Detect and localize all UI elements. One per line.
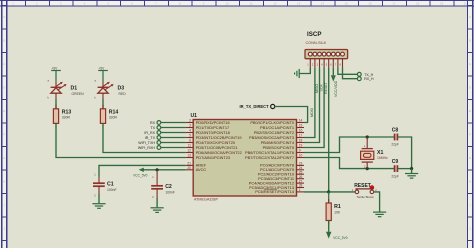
svg-text:D1: D1 bbox=[71, 85, 78, 91]
svg-text:MISO: MISO bbox=[315, 84, 319, 93]
ground below button bbox=[373, 212, 386, 217]
resistor R1 10K bbox=[326, 192, 331, 224]
svg-text:17: 17 bbox=[392, 2, 396, 6]
svg-text:22pF: 22pF bbox=[391, 174, 398, 178]
svg-text:16MHz: 16MHz bbox=[377, 156, 388, 160]
U1 left pin 2 PD0 stub bbox=[186, 122, 193, 124]
svg-text:330R: 330R bbox=[109, 116, 118, 120]
svg-text:330R: 330R bbox=[62, 116, 71, 120]
svg-text:10: 10 bbox=[299, 154, 303, 158]
U1 right pin 28 PC5 stub bbox=[297, 187, 305, 189]
svg-text:20: 20 bbox=[464, 2, 468, 6]
wire ISCP pin8 to RX_H bbox=[343, 67, 358, 78]
svg-text:C9: C9 bbox=[392, 159, 399, 165]
svg-text:PC6/RESET/PCINT14: PC6/RESET/PCINT14 bbox=[255, 189, 295, 194]
svg-text:18: 18 bbox=[299, 139, 303, 143]
svg-text:9: 9 bbox=[299, 149, 301, 153]
microcontroller U1 ATMEGA328P body bbox=[193, 120, 296, 197]
svg-text:10K: 10K bbox=[334, 210, 341, 214]
wire IR_TX to U1 bbox=[161, 137, 186, 139]
svg-text:GREEN: GREEN bbox=[72, 92, 85, 96]
wire MISO ISCP pin3 to U1 PB4 bbox=[304, 67, 320, 142]
power terminal VCC_5V0 below R1 bbox=[326, 221, 331, 239]
U1 left pin 4 PD2 stub bbox=[186, 132, 193, 134]
wire WIFI_RXH to U1 bbox=[161, 147, 186, 149]
svg-text:C8: C8 bbox=[392, 127, 399, 133]
svg-text:RESET: RESET bbox=[324, 81, 328, 94]
svg-text:4: 4 bbox=[189, 129, 191, 133]
ground below C1 bbox=[92, 203, 105, 208]
wire IR_RX to U1 bbox=[161, 132, 186, 134]
svg-text:24: 24 bbox=[299, 166, 303, 170]
svg-text:27: 27 bbox=[299, 179, 303, 183]
svg-text:16: 16 bbox=[368, 2, 372, 6]
wire RESET ISCP pin5 to U1 PC6 bbox=[304, 67, 329, 191]
connector pin 4 stub bbox=[323, 59, 325, 68]
svg-text:1: 1 bbox=[299, 188, 301, 192]
svg-text:22pF: 22pF bbox=[391, 143, 398, 147]
connector J1 ISCP CONN-SIL8 body bbox=[305, 50, 348, 59]
wire C2 to ground bbox=[156, 198, 158, 207]
connector pin 7 stub bbox=[337, 59, 339, 68]
wire C9 to ground rail bbox=[397, 168, 411, 170]
U1 right pin 14 PB0 stub bbox=[297, 122, 305, 124]
wire RX to U1 bbox=[161, 122, 186, 124]
svg-text:E: E bbox=[3, 109, 5, 113]
U1 right pin 15 PB1 stub bbox=[297, 127, 305, 129]
U1 right pin 19 PB5 stub bbox=[297, 147, 305, 149]
pushbutton SW tactile bbox=[352, 189, 378, 194]
capacitor C9 22pF bbox=[395, 165, 398, 172]
junction RESET / R1 / button bbox=[327, 190, 330, 193]
svg-text:3: 3 bbox=[189, 124, 191, 128]
capacitor C2 100nF bbox=[151, 170, 163, 199]
svg-text:10: 10 bbox=[226, 2, 230, 6]
svg-text:11: 11 bbox=[250, 2, 253, 6]
connector pin 1 stub bbox=[309, 59, 311, 68]
U1 left pin 13 PD7 stub bbox=[186, 157, 193, 159]
U1 right pin 25 PC2 stub bbox=[297, 173, 305, 175]
svg-text:RESET: RESET bbox=[354, 183, 371, 189]
terminal TX bbox=[150, 126, 160, 130]
svg-text:14: 14 bbox=[321, 2, 325, 6]
capacitor C8 22pF bbox=[395, 134, 398, 141]
svg-text:20: 20 bbox=[187, 166, 191, 170]
svg-text:13: 13 bbox=[187, 154, 191, 158]
svg-text:ISCP: ISCP bbox=[307, 31, 321, 38]
svg-text:RX_H: RX_H bbox=[364, 77, 374, 81]
svg-text:IR_TX_DIRECT: IR_TX_DIRECT bbox=[240, 104, 270, 109]
U1 right pin 17 PB3 stub bbox=[297, 137, 305, 139]
svg-text:C2: C2 bbox=[165, 184, 172, 190]
svg-text:TX_H: TX_H bbox=[364, 73, 373, 77]
svg-text:R13: R13 bbox=[62, 109, 72, 115]
svg-text:WIFI_RXH: WIFI_RXH bbox=[138, 146, 156, 150]
svg-text:VCC_5V0: VCC_5V0 bbox=[333, 236, 347, 240]
wire WIFI_TXH to U1 bbox=[161, 142, 186, 144]
U1 right pin 26 PC3 stub bbox=[297, 178, 305, 180]
U1 left pin 12 PD6 stub bbox=[186, 152, 193, 154]
junction crystal top bbox=[366, 135, 369, 138]
wire D1 to R13 bbox=[55, 99, 57, 109]
svg-text:AVCC: AVCC bbox=[196, 167, 207, 172]
wire MOSI ISCP pin2 to U1 PB3 bbox=[304, 67, 315, 137]
connector pin 2 stub bbox=[314, 59, 316, 68]
U1 right pin 10 PB7 stub bbox=[297, 157, 305, 159]
resistor R14 330R bbox=[100, 105, 105, 128]
wire R13 to U1 PD7 bbox=[56, 123, 186, 157]
U1 left pin 5 PD3 stub bbox=[186, 137, 193, 139]
svg-text:E: E bbox=[469, 109, 471, 113]
svg-text:D3: D3 bbox=[118, 85, 125, 91]
wire RESET junction to button bbox=[329, 191, 355, 193]
svg-text:IR_TX: IR_TX bbox=[145, 136, 156, 140]
resistor R13 330R bbox=[53, 105, 58, 128]
svg-text:19: 19 bbox=[299, 144, 303, 148]
svg-text:RX: RX bbox=[150, 121, 156, 125]
terminal RX_H bbox=[357, 77, 374, 81]
svg-text:13: 13 bbox=[297, 2, 301, 6]
svg-text:SCK: SCK bbox=[319, 84, 323, 92]
wire U1 AREF to C1 bbox=[99, 165, 186, 176]
svg-text:A: A bbox=[3, 15, 5, 19]
svg-text:PD7/AIN1/PCINT23: PD7/AIN1/PCINT23 bbox=[196, 155, 230, 160]
wire C1 to ground bbox=[98, 194, 100, 204]
U1 right pin 16 PB2 stub bbox=[297, 132, 305, 134]
wire to ground bbox=[411, 169, 413, 173]
svg-text:PB7/TOSC2/XTAL2/PCINT7: PB7/TOSC2/XTAL2/PCINT7 bbox=[245, 155, 294, 160]
svg-text:F: F bbox=[469, 133, 471, 137]
svg-text:15: 15 bbox=[299, 124, 303, 128]
svg-text:VCC/VDD: VCC/VDD bbox=[334, 80, 338, 97]
svg-text:R1: R1 bbox=[334, 204, 341, 210]
svg-text:2: 2 bbox=[189, 119, 191, 123]
svg-text:21: 21 bbox=[187, 162, 191, 166]
U1 right pin 1 PC6 stub bbox=[297, 191, 305, 193]
junction crystal bottom bbox=[366, 167, 369, 170]
svg-text:CONN-SIL8: CONN-SIL8 bbox=[306, 41, 326, 45]
power terminal VCC/VDD (ISCP pin6) bbox=[331, 67, 336, 81]
svg-text:VCC_5V0: VCC_5V0 bbox=[133, 173, 147, 177]
ground right of crystal bbox=[405, 173, 418, 178]
ground below C2 bbox=[151, 207, 164, 212]
U1 left pin 20 AVCC stub bbox=[186, 169, 193, 171]
svg-text:6: 6 bbox=[189, 139, 191, 143]
svg-text:H: H bbox=[3, 180, 5, 184]
svg-text:100nF: 100nF bbox=[107, 188, 117, 192]
U1 right pin 27 PC4 stub bbox=[297, 182, 305, 184]
terminal TX_H bbox=[357, 72, 373, 76]
connector pin 3 stub bbox=[319, 59, 321, 68]
svg-text:C1: C1 bbox=[107, 182, 114, 188]
junction AVCC / C2 bbox=[156, 168, 159, 171]
terminal RX bbox=[150, 121, 161, 125]
svg-text:17: 17 bbox=[299, 134, 303, 138]
U1 right pin 24 PC1 stub bbox=[297, 169, 305, 171]
power terminal +5V above D3 bbox=[98, 71, 108, 83]
U1 left pin 11 PD5 stub bbox=[186, 147, 193, 149]
svg-text:+5V: +5V bbox=[99, 66, 106, 70]
wire IR_TX_DIRECT to U1 PB0 bbox=[275, 107, 308, 123]
U1 right pin 18 PB4 stub bbox=[297, 142, 305, 144]
svg-text:18: 18 bbox=[416, 2, 420, 6]
svg-text:100nF: 100nF bbox=[165, 190, 175, 194]
U1 left pin 3 PD1 stub bbox=[186, 127, 193, 129]
U1 left pin 21 AREF stub bbox=[186, 164, 193, 166]
svg-text:26: 26 bbox=[299, 175, 303, 179]
svg-text:H: H bbox=[469, 180, 471, 184]
svg-text:5: 5 bbox=[189, 134, 191, 138]
crystal X1 16MHz bbox=[361, 137, 374, 169]
svg-text:RED: RED bbox=[119, 92, 127, 96]
LED D1 GREEN bbox=[48, 80, 67, 100]
svg-text:B: B bbox=[469, 39, 471, 43]
power label VCC_5V0 arrow (AVCC) bbox=[133, 168, 186, 178]
red indicator dot of RESET button bbox=[370, 185, 375, 190]
connector pin 5 stub bbox=[328, 59, 330, 68]
svg-text:+5V: +5V bbox=[52, 66, 59, 70]
wire U1 PB7/XTAL2 to crystal bottom rail bbox=[304, 158, 394, 169]
connector pin 8 stub bbox=[342, 59, 344, 68]
svg-text:23: 23 bbox=[299, 162, 303, 166]
U1 right pin 9 PB6 stub bbox=[297, 152, 305, 154]
svg-text:U1: U1 bbox=[191, 113, 198, 119]
ground left of ISCP (rotated) bbox=[295, 69, 300, 78]
svg-text:B: B bbox=[3, 39, 5, 43]
U1 left pin 6 PD4 stub bbox=[186, 142, 193, 144]
svg-text:R14: R14 bbox=[109, 109, 119, 115]
U1 right pin 23 PC0 stub bbox=[297, 164, 305, 166]
svg-text:25: 25 bbox=[299, 170, 303, 174]
wire button to ground bbox=[374, 192, 380, 212]
terminal IR_TX_DIRECT bbox=[240, 104, 275, 109]
svg-text:Tactile Button: Tactile Button bbox=[357, 195, 375, 199]
wire D3 to R14 bbox=[102, 99, 104, 109]
terminal IR_TX bbox=[145, 136, 161, 140]
svg-text:28: 28 bbox=[299, 184, 303, 188]
svg-text:ATMEGA328P: ATMEGA328P bbox=[194, 198, 218, 202]
capacitor C1 100nF bbox=[93, 173, 105, 198]
LED D3 RED bbox=[95, 80, 114, 100]
svg-text:19: 19 bbox=[440, 2, 444, 6]
svg-text:14: 14 bbox=[299, 119, 303, 123]
svg-text:12: 12 bbox=[187, 149, 191, 153]
wire U1 PB6/XTAL1 to crystal top rail bbox=[304, 137, 394, 153]
svg-text:A: A bbox=[469, 15, 471, 19]
terminal WIFI_TXH bbox=[138, 141, 161, 145]
svg-text:IR_RX: IR_RX bbox=[144, 131, 155, 135]
wire ISCP pin1 to ground bbox=[299, 67, 310, 73]
svg-text:WIFI_TXH: WIFI_TXH bbox=[138, 141, 155, 145]
wire R14 to U1 PD6 bbox=[103, 123, 186, 152]
wire TX to U1 bbox=[161, 127, 186, 129]
svg-text:TX: TX bbox=[150, 126, 155, 130]
terminal IR_RX bbox=[144, 131, 160, 135]
wire C8 to ground rail bbox=[397, 137, 411, 169]
wire ISCP pin7 to TX_H bbox=[338, 67, 358, 74]
junction C8/C9 ground rail bbox=[410, 167, 413, 170]
terminal WIFI_RXH bbox=[138, 146, 161, 150]
svg-text:11: 11 bbox=[188, 144, 192, 148]
power terminal +5V above D1 bbox=[51, 71, 61, 83]
svg-text:15: 15 bbox=[345, 2, 349, 6]
svg-text:MOSI: MOSI bbox=[310, 108, 314, 117]
wire SCK ISCP pin4 to U1 PB5 bbox=[304, 67, 324, 147]
connector pin 6 stub bbox=[332, 59, 334, 68]
svg-text:16: 16 bbox=[299, 129, 303, 133]
svg-text:F: F bbox=[3, 133, 5, 137]
svg-text:12: 12 bbox=[273, 2, 277, 6]
